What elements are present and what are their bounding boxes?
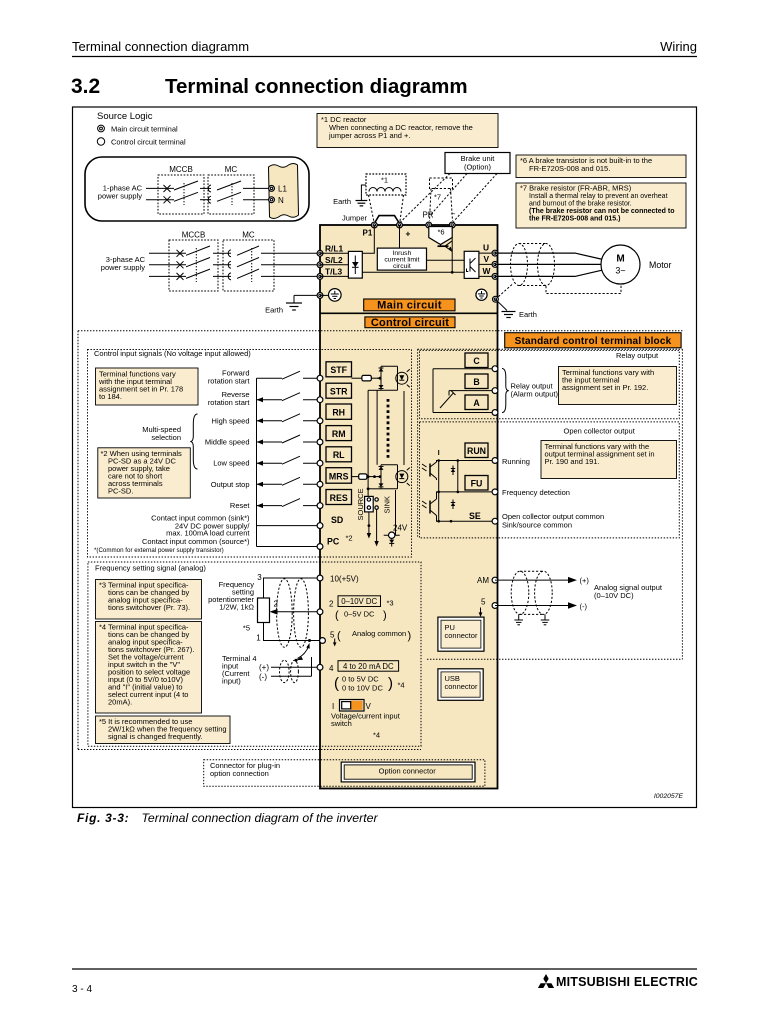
svg-text:C: C [473,356,480,366]
svg-text:10(+5V): 10(+5V) [330,575,359,584]
arrow under 5 [480,608,482,614]
dc mid rail [427,259,465,261]
MC2 contacts [228,250,231,280]
terminal A [492,410,498,416]
terminal PR [426,222,432,228]
svg-text:−: − [451,210,456,219]
terminal B [492,388,498,394]
svg-text:selection: selection [151,433,181,442]
wire RUN [436,460,495,462]
wire SD [257,525,321,527]
control input signals frame [88,350,412,558]
RUN FU boxes / SE label [465,443,488,458]
terminal + [397,222,403,228]
svg-text:Main circuit: Main circuit [377,300,442,312]
svg-text:S/L2: S/L2 [325,255,343,265]
svg-text:5: 5 [481,597,486,606]
svg-text:SOURCE: SOURCE [356,488,365,520]
diode D-FU [451,503,455,507]
svg-text:circuit: circuit [393,263,411,270]
svg-text:N: N [278,196,284,205]
switch MRS wire [257,483,283,485]
terminal boxes STF..RES [326,362,352,377]
svg-text:Control input signals (No volt: Control input signals (No voltage input … [94,349,251,358]
svg-text:STR: STR [330,387,348,397]
svg-text:1/2W, 1kΩ: 1/2W, 1kΩ [219,603,254,612]
svg-text:2: 2 [274,600,279,609]
pc1 bottom return wire [368,389,381,391]
svg-text:RH: RH [332,408,345,418]
svg-text:): ) [388,675,393,692]
terminal C [492,366,498,372]
svg-text:power supply: power supply [98,192,142,201]
svg-text:Low speed: Low speed [213,459,249,468]
svg-text:(The brake resistor can not be: (The brake resistor can not be connected… [529,208,674,215]
svg-text:*6: *6 [437,228,444,237]
svg-text:input): input) [222,677,241,686]
relay contact lever [440,393,454,408]
svg-text:PR: PR [422,211,433,220]
legend control circuit terminal symbol [97,138,104,145]
main/control divider [320,312,498,314]
svg-text:*(Common for external power su: *(Common for external power supply trans… [94,547,224,554]
svg-text:3~: 3~ [615,266,625,276]
wires to converter [320,252,348,254]
svg-text:Middle speed: Middle speed [205,438,250,447]
svg-text:Frequency detection: Frequency detection [502,488,570,497]
wire U to motor [495,253,603,259]
wire FU [436,491,495,493]
terminal STF [317,375,323,381]
vertical wire pc2 to 24V [395,490,397,535]
svg-text:*5: *5 [243,624,250,633]
svg-text:SINK: SINK [382,496,391,514]
svg-text:(-): (-) [259,672,267,681]
earth terminal left [317,293,323,299]
svg-text:MITSUBISHI ELECTRIC: MITSUBISHI ELECTRIC [556,975,698,989]
brake resistor *7 [430,178,453,189]
svg-text:2: 2 [329,600,334,609]
svg-text:Sink/source common: Sink/source common [502,520,572,529]
*6 pentagon callout [429,227,452,245]
svg-text:0–5V DC: 0–5V DC [344,610,375,619]
svg-text:rotation start: rotation start [208,377,251,386]
inductor winding [369,188,401,192]
photocoupler PC1 [377,366,410,390]
svg-text:Control circuit: Control circuit [371,317,449,329]
svg-text:RM: RM [332,429,346,439]
wire oc common rail [438,461,440,522]
svg-text:M: M [616,254,624,265]
brake transistor Q6 [438,245,449,247]
svg-text:Wiring: Wiring [660,39,697,54]
legend main circuit terminal symbol [98,125,105,132]
svg-text:signal is changed frequently.: signal is changed frequently. [108,732,203,741]
MC2 box [223,240,274,291]
note *7 [516,183,686,228]
svg-text:Install a thermal relay to pre: Install a thermal relay to prevent an ov… [529,193,668,200]
svg-text:SD: SD [331,515,343,525]
terminal PC [317,544,323,550]
wire SE [436,520,495,522]
switch RM wire [257,441,283,443]
note terminal functions Pr178 [96,368,199,405]
svg-text:Earth: Earth [519,310,537,319]
svg-text:Terminal connection diagramm: Terminal connection diagramm [72,39,249,54]
transistor Q-RUN [422,461,437,481]
switch RES wire [257,505,283,507]
AM cable shield [511,571,552,614]
svg-text:Analog common: Analog common [352,629,406,638]
svg-text:(Option): (Option) [464,163,492,172]
junction dots [437,459,459,522]
STF internal wire + resistor R1 [352,377,362,379]
shield ground 1 [518,614,520,619]
wire PC [257,546,321,548]
svg-text:U: U [483,243,489,253]
terminal N [269,197,275,203]
svg-text:the FR-E720S-008 and 015.): the FR-E720S-008 and 015.) [529,216,620,223]
svg-text:MRS: MRS [329,472,349,482]
svg-text:PC: PC [327,537,340,547]
switch STR wire [257,399,283,401]
svg-text:power supply: power supply [101,263,145,272]
svg-text:to 184.: to 184. [99,392,122,401]
Mitsubishi logo mark [538,974,554,988]
svg-text:connector: connector [445,682,478,691]
wire phase S [149,264,186,266]
diode D-RUN [451,469,455,473]
terminal SE [492,518,498,524]
svg-text:*1: *1 [381,176,388,185]
0-10V DC box [338,596,381,607]
svg-text:*7: *7 [434,193,441,202]
svg-text:Earth: Earth [333,197,351,206]
earth lead right [495,299,507,310]
vertical wire A [376,390,378,465]
terminal minus [449,222,455,228]
footer rule [72,968,697,970]
P1 feed wire [362,225,374,253]
svg-text:A: A [473,398,480,408]
svg-text:Control circuit terminal: Control circuit terminal [111,138,186,147]
terminal RM [317,439,323,445]
wire relay B [449,390,495,392]
svg-text:AM: AM [477,576,489,585]
svg-text:4: 4 [329,664,334,673]
svg-text:L1: L1 [278,185,287,194]
pot cable shield [277,579,309,648]
terminal T/L3 [317,274,323,280]
svg-text:Open collector output: Open collector output [564,427,636,436]
svg-text:Terminal connection diagramm: Terminal connection diagramm [165,75,468,98]
terminal 5 analog common [320,638,326,644]
wire V to motor [495,263,602,265]
svg-text:(-): (-) [580,602,588,611]
terminal L1 [269,186,275,192]
svg-text:T/L3: T/L3 [325,267,343,277]
MC contacts [208,185,211,192]
output wires [479,252,495,254]
svg-text:(+): (+) [259,663,269,672]
svg-text:Main circuit terminal: Main circuit terminal [111,125,178,134]
svg-text:Option connector: Option connector [379,767,437,776]
svg-text:): ) [383,610,387,622]
svg-text:I002057E: I002057E [654,793,684,800]
svg-text:MCCB: MCCB [169,165,193,174]
svg-text:Motor: Motor [649,260,672,270]
open collector frame [420,422,680,538]
figure outer frame [73,107,697,808]
svg-text:0 to 5V DC: 0 to 5V DC [342,675,379,684]
svg-text:Frequency setting signal (anal: Frequency setting signal (analog) [95,564,206,573]
terminal S/L2 [317,262,323,268]
note *5 [96,716,231,744]
svg-text:MCCB: MCCB [182,231,206,240]
terminal 2 [317,609,323,615]
header rule [72,56,697,58]
terminal V [492,262,498,268]
terminal 10 [317,575,323,581]
terminal RL [317,460,323,466]
sink contacts [375,498,378,501]
svg-text:FR-E720S-008 and 015.: FR-E720S-008 and 015. [529,164,610,173]
terminal FU [492,489,498,495]
brake unit box [445,153,510,174]
svg-text:connector: connector [445,631,478,640]
note *4 [96,622,202,714]
MC box [208,175,254,214]
svg-text:Relay output: Relay output [616,351,659,360]
current input switching curve [298,646,309,659]
standard control terminal block frame [418,349,683,659]
sink down wire to PC [376,509,378,541]
source to SD wire [368,512,370,534]
pc2 bottom return wire [368,488,381,490]
shield ground 2 [544,614,546,619]
svg-text:Earth: Earth [265,306,283,315]
USB connector [438,669,483,701]
terminal MRS [317,481,323,487]
protective earth symbol right [476,289,487,300]
svg-text:5: 5 [330,631,335,640]
continuation dotted line [387,399,390,458]
svg-text:jumper across P1 and +.: jumper across P1 and +. [328,131,411,140]
reactor earth wire [361,185,366,200]
rounded enclosure [85,157,309,221]
wires R S T [149,253,320,276]
outer dashed frame [78,331,683,750]
svg-text:(: ( [337,630,341,642]
terminal R/L1 [317,250,323,256]
control terminals on edge [317,375,323,549]
svg-text:PC-SD.: PC-SD. [108,486,133,495]
wire relay C [433,368,495,370]
svg-text:assignment set in Pr. 192.: assignment set in Pr. 192. [562,383,648,392]
wire L row1 [146,187,174,189]
svg-text:RUN: RUN [467,446,486,456]
svg-text:RL: RL [333,450,345,460]
MCCB2 levers [186,246,210,255]
vertical wire pc right side [403,391,405,465]
terminal RUN [492,458,498,464]
note *2 PC-SD [98,448,191,498]
svg-text:rotation start: rotation start [208,398,251,407]
note Pr192 [559,367,677,405]
ground symbol [286,303,302,310]
inverter module [464,251,479,278]
orange header [505,333,681,348]
reactor dashed leads [369,195,374,221]
switch RL wire [257,462,283,464]
bus arrowheads [257,397,264,508]
converter bridge [348,251,362,278]
vertical wire B to source [367,390,369,497]
motor M [601,245,640,284]
switch RH wire [257,420,283,422]
relay output frame [420,350,680,418]
svg-text:(: ( [334,675,339,692]
wire phase R [149,252,186,254]
Control circuit label [365,317,455,328]
earth wire 3phase [294,294,320,296]
svg-text:V: V [366,702,372,711]
protective earth symbol left [320,294,328,296]
relay contact wiring [433,369,495,413]
source jumper block [365,496,374,512]
svg-text:Running: Running [502,457,530,466]
MCCB2 box [169,240,218,291]
svg-text:MC: MC [225,165,238,174]
earth terminal right edge [493,296,499,302]
svg-text:STF: STF [330,365,347,375]
svg-text:Pr. 190 and 191.: Pr. 190 and 191. [545,457,600,466]
svg-text:tions switchover (Pr. 73).: tions switchover (Pr. 73). [108,603,190,612]
svg-text:High speed: High speed [212,416,250,425]
terminal P1 [371,222,377,228]
terminal 4 [317,664,323,670]
svg-text:*4: *4 [398,681,405,690]
MCCB box [158,175,204,214]
photocoupler PC2 [377,465,410,489]
terminal STR [317,397,323,403]
svg-text:Standard control terminal bloc: Standard control terminal block [515,336,672,347]
note Pr190 [541,441,677,479]
svg-text:*2: *2 [346,534,353,543]
wire N row2 [146,199,174,201]
svg-text:Reset: Reset [230,501,251,510]
svg-text:+: + [406,229,411,239]
input switches and wires [257,371,321,546]
svg-text:W: W [483,266,491,276]
torn paper strip [269,164,299,219]
MCCB fuse X marks [164,185,171,203]
wire phase T [149,275,186,277]
note *3 [96,580,202,620]
MRS internal wire + resistor R2 [352,476,359,478]
switch STF wire [257,377,283,379]
svg-text:24V: 24V [393,524,408,533]
svg-text:0 to 10V DC: 0 to 10V DC [342,684,383,693]
svg-text:(0–10V DC): (0–10V DC) [594,591,634,600]
svg-text:*3: *3 [387,599,394,608]
dashed leads brake unit [401,174,498,223]
svg-text:SE: SE [469,511,481,521]
dc bottom rail [362,271,464,273]
svg-text:): ) [408,630,412,642]
multi-speed brace [190,414,197,469]
svg-text:*7 Brake resistor (FR-ABR, MR: *7 Brake resistor (FR-ABR, MRS) [520,184,632,193]
inrush current limit circuit [377,248,426,270]
wire relay common [432,369,434,413]
common bus line [256,378,258,546]
svg-text:FU: FU [471,479,483,489]
svg-text:3.2: 3.2 [71,75,100,98]
svg-text:(: ( [335,610,339,622]
svg-text:0–10V DC: 0–10V DC [341,597,377,606]
svg-text:P1: P1 [363,229,373,238]
svg-text:3 - 4: 3 - 4 [72,984,92,995]
open collector wires [436,450,495,521]
relay terminal boxes C B A [465,353,488,368]
transistor Q-FU [422,492,437,521]
svg-text:*4: *4 [373,731,380,740]
terminal SD [317,523,323,529]
svg-text:Terminal connection diagram of: Terminal connection diagram of the inver… [142,811,379,825]
PU connector [438,617,484,651]
svg-text:option connection: option connection [210,769,269,778]
terminal U [492,250,498,256]
svg-text:and burnout of the brake resis: and burnout of the brake resistor. [529,201,632,208]
svg-text:RES: RES [330,493,348,503]
MCCB breaker levers [174,181,198,190]
terminal RH [317,418,323,424]
svg-text:Output stop: Output stop [211,480,250,489]
svg-text:(+): (+) [580,576,590,585]
svg-text:Fig. 3-3:: Fig. 3-3: [77,811,129,825]
terminal4 wires [271,666,320,668]
+ feed wire [399,225,401,248]
svg-text:R/L1: R/L1 [325,244,343,254]
svg-text:Source Logic: Source Logic [97,111,153,122]
wire W to motor [495,270,603,277]
svg-text:Contact input common (source*): Contact input common (source*) [142,537,250,546]
option connector box [341,762,475,782]
cable shield [498,244,622,298]
svg-text:I: I [332,702,334,711]
svg-text:Jumper: Jumper [342,214,368,223]
terminal RES [317,503,323,509]
Main circuit label [364,299,455,311]
svg-text:1: 1 [256,633,261,642]
svg-text:V: V [484,254,490,264]
svg-text:20mA).: 20mA). [108,698,132,707]
diode D24 [389,540,394,544]
note *6 [516,155,686,178]
potentiometer [258,598,270,623]
terminal4 shield [280,660,299,682]
MCCB2 X marks [177,250,184,280]
minus bus down [451,238,453,273]
wire relay A [433,412,495,414]
svg-text:MC: MC [242,231,255,240]
terminal W [492,274,498,280]
svg-text:(Alarm output): (Alarm output) [511,390,559,399]
svg-text:3: 3 [257,573,262,582]
svg-text:B: B [473,377,479,387]
relay brace [502,369,509,413]
input function labels [142,369,250,547]
